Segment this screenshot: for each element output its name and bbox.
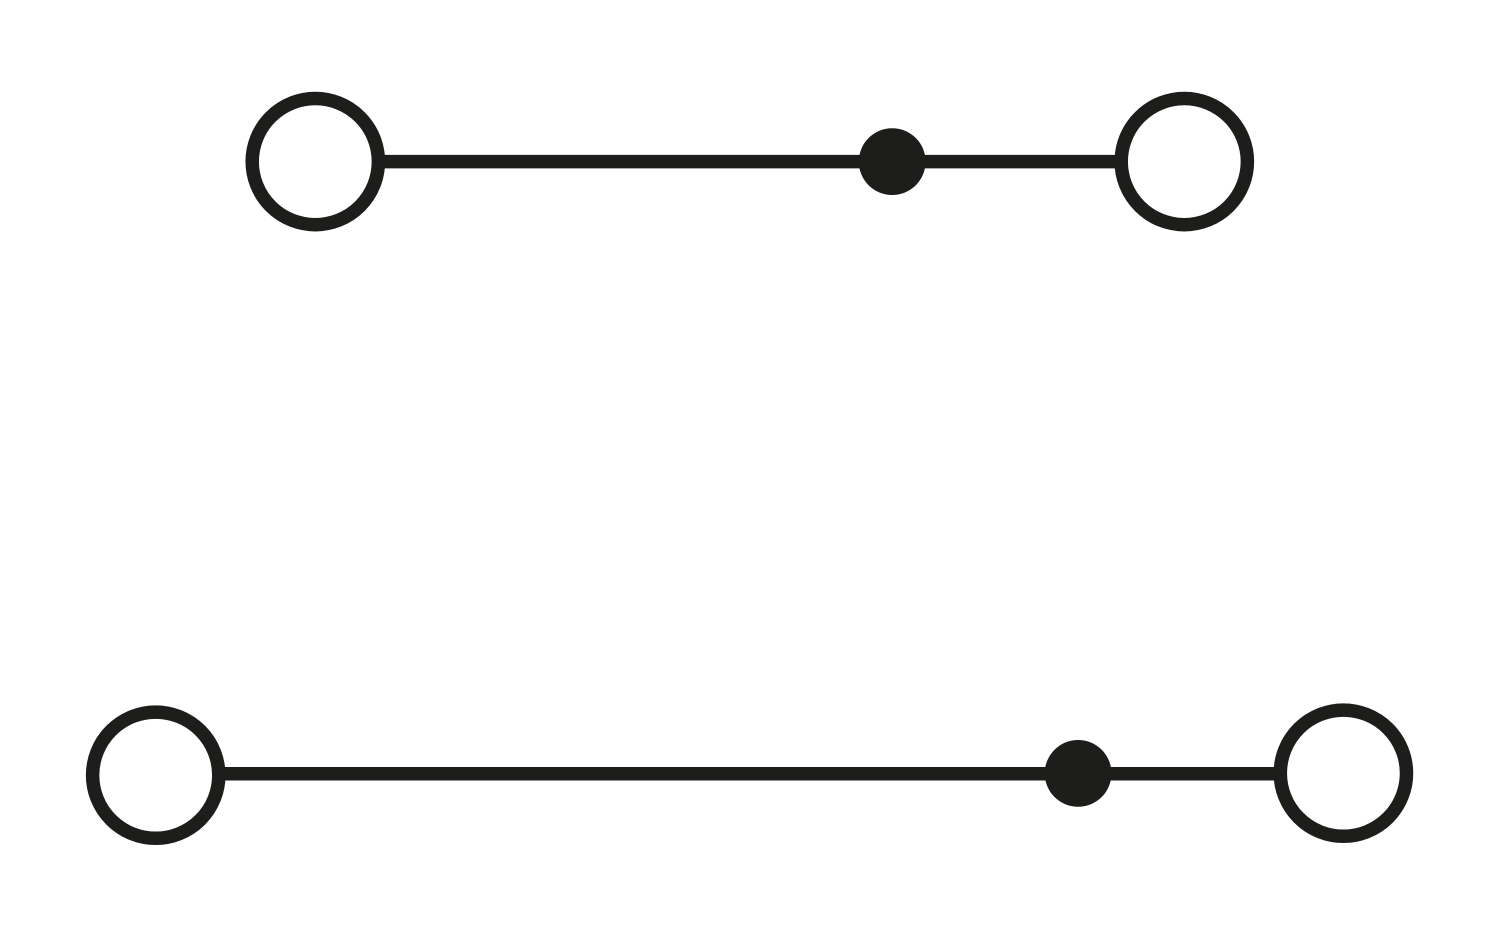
terminal circle T1 (upper level, left) [252,99,378,225]
junction dot (lower level) [1045,740,1112,807]
terminal circle T3 (lower level, left) [93,712,219,838]
terminal circle T4 (lower level, right) [1280,710,1406,836]
junction dot (upper level) [859,128,926,195]
wire (lower level, T3 to T4) [218,767,1281,781]
terminal circle T2 (upper level, right) [1121,99,1247,225]
wire (upper level, T1 to T2) [378,155,1122,169]
